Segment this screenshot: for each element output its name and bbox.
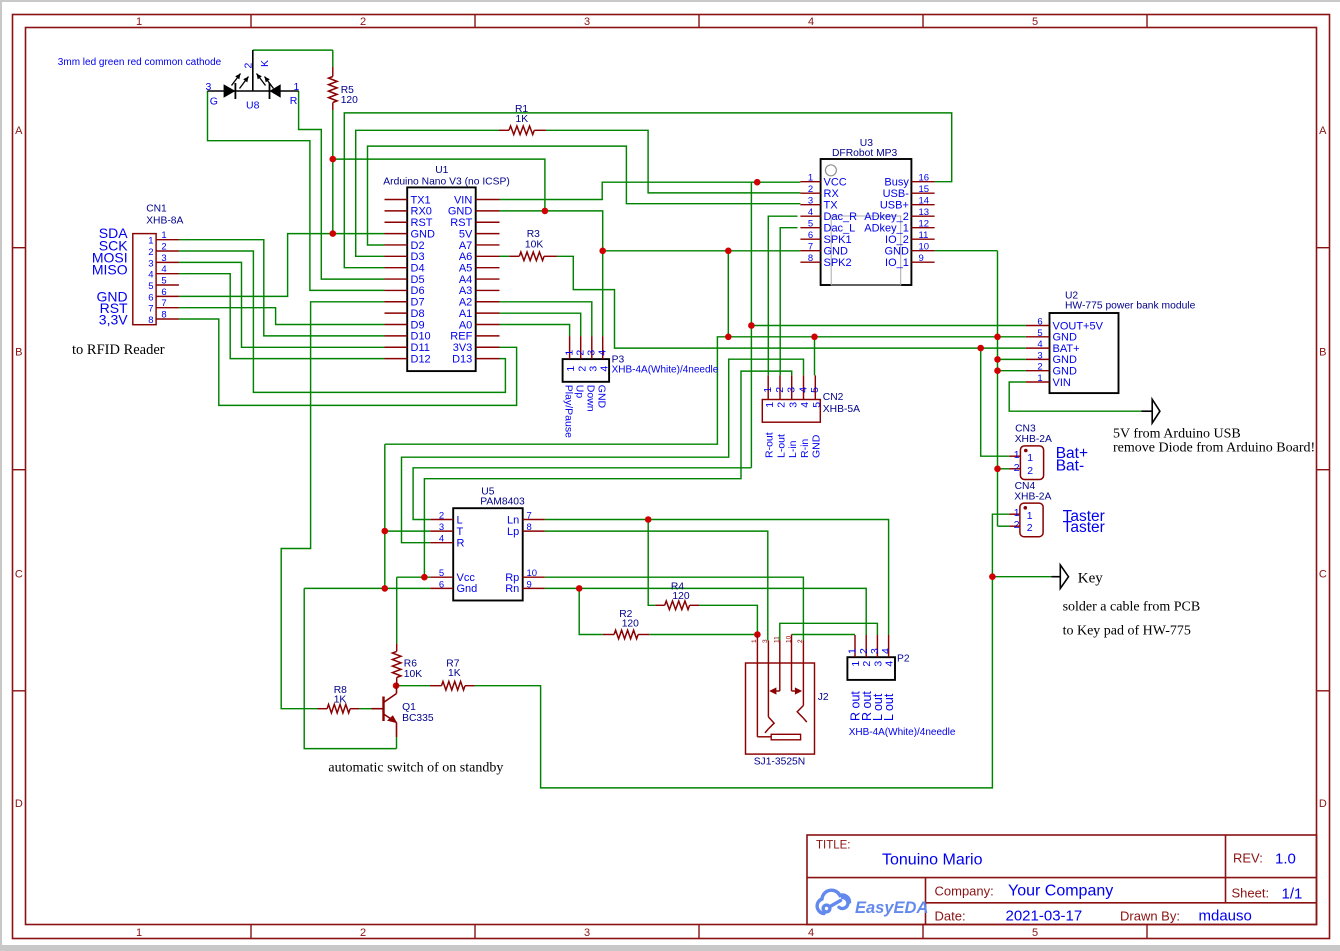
svg-text:DFRobot MP3: DFRobot MP3: [832, 148, 898, 159]
svg-text:GND: GND: [596, 385, 608, 409]
svg-text:12: 12: [919, 219, 930, 230]
svg-text:5V: 5V: [459, 228, 473, 240]
svg-text:2: 2: [858, 648, 870, 654]
svg-text:Dac_R: Dac_R: [824, 211, 858, 223]
svg-text:5: 5: [148, 281, 153, 292]
svg-text:1: 1: [136, 927, 142, 939]
svg-text:Vcc: Vcc: [457, 572, 476, 584]
svg-text:to Key pad of HW-775: to Key pad of HW-775: [1063, 624, 1191, 639]
svg-text:8: 8: [808, 253, 813, 264]
svg-text:GND: GND: [1053, 354, 1078, 366]
svg-text:9: 9: [919, 253, 924, 264]
svg-text:13: 13: [919, 207, 930, 218]
svg-text:2: 2: [1027, 465, 1033, 477]
svg-text:5V from Arduino USB: 5V from Arduino USB: [1113, 427, 1241, 442]
svg-text:D6: D6: [411, 285, 425, 297]
svg-text:CN4: CN4: [1015, 481, 1036, 492]
svg-text:8: 8: [161, 310, 166, 321]
svg-text:8: 8: [527, 522, 532, 533]
svg-text:3: 3: [584, 16, 590, 28]
svg-text:1: 1: [136, 16, 142, 28]
svg-text:ADkey_1: ADkey_1: [864, 223, 909, 235]
svg-text:2: 2: [797, 639, 804, 643]
svg-text:Company:: Company:: [935, 884, 994, 899]
svg-text:1: 1: [751, 639, 758, 643]
svg-text:IO_1: IO_1: [885, 257, 909, 269]
svg-text:4: 4: [808, 207, 813, 218]
svg-text:5: 5: [809, 387, 821, 393]
svg-text:K: K: [259, 60, 271, 67]
svg-text:3: 3: [439, 522, 444, 533]
svg-text:D8: D8: [411, 308, 425, 320]
svg-text:2: 2: [774, 387, 786, 393]
svg-text:BAT+: BAT+: [1053, 343, 1080, 355]
svg-text:2: 2: [1037, 362, 1042, 373]
svg-text:1: 1: [294, 81, 300, 93]
svg-text:3: 3: [584, 927, 590, 939]
svg-text:1.0: 1.0: [1275, 851, 1296, 868]
svg-text:4: 4: [161, 264, 166, 275]
svg-text:9: 9: [527, 579, 532, 590]
svg-text:2: 2: [243, 63, 255, 69]
svg-text:6: 6: [148, 292, 153, 303]
svg-text:remove Diode from Arduino Boar: remove Diode from Arduino Board!: [1113, 441, 1315, 456]
svg-text:D4: D4: [411, 262, 425, 274]
svg-text:6: 6: [1037, 317, 1042, 328]
svg-text:R-out: R-out: [764, 432, 776, 458]
svg-text:Taster: Taster: [1063, 519, 1105, 536]
svg-text:A: A: [1319, 125, 1327, 137]
svg-text:MISO: MISO: [92, 262, 128, 278]
svg-text:P2: P2: [897, 654, 910, 665]
svg-text:GND: GND: [811, 434, 823, 458]
svg-text:1/1: 1/1: [1282, 886, 1303, 903]
svg-text:3: 3: [762, 639, 769, 643]
svg-text:11: 11: [774, 636, 781, 643]
svg-text:3: 3: [872, 661, 884, 667]
svg-text:A7: A7: [459, 240, 472, 252]
svg-text:14: 14: [919, 196, 930, 207]
svg-text:R: R: [290, 95, 298, 107]
svg-text:10K: 10K: [404, 669, 422, 680]
svg-text:A0: A0: [459, 319, 472, 331]
svg-text:1: 1: [1027, 510, 1033, 522]
svg-text:2: 2: [148, 247, 153, 258]
svg-text:Play/Pause: Play/Pause: [562, 385, 574, 438]
svg-text:XHB-2A: XHB-2A: [1015, 434, 1052, 445]
svg-text:VIN: VIN: [454, 194, 472, 206]
svg-text:Date:: Date:: [935, 909, 966, 924]
svg-text:SPK2: SPK2: [824, 257, 852, 269]
svg-text:2: 2: [861, 661, 873, 667]
svg-text:RST: RST: [450, 217, 472, 229]
svg-text:GND: GND: [884, 246, 909, 258]
svg-text:XHB-5A: XHB-5A: [823, 404, 860, 415]
svg-text:4: 4: [148, 270, 153, 281]
svg-text:XHB-2A: XHB-2A: [1014, 491, 1051, 502]
svg-text:ADkey_2: ADkey_2: [864, 211, 909, 223]
svg-text:5: 5: [439, 568, 444, 579]
svg-text:120: 120: [672, 591, 689, 602]
svg-text:4: 4: [808, 16, 814, 28]
svg-text:SJ1-3525N: SJ1-3525N: [754, 757, 806, 768]
svg-text:1: 1: [847, 648, 859, 654]
svg-text:A2: A2: [459, 297, 472, 309]
svg-text:7: 7: [527, 511, 532, 522]
svg-text:A3: A3: [459, 285, 472, 297]
svg-text:120: 120: [622, 619, 639, 630]
svg-text:D2: D2: [411, 240, 425, 252]
svg-text:Lp: Lp: [507, 526, 519, 538]
svg-text:1K: 1K: [448, 668, 461, 679]
svg-text:GND: GND: [1053, 332, 1078, 344]
svg-text:TX: TX: [824, 200, 839, 212]
svg-text:SPK1: SPK1: [824, 234, 852, 246]
svg-text:Dac_L: Dac_L: [824, 223, 856, 235]
svg-text:1: 1: [1037, 373, 1042, 384]
svg-text:CN1: CN1: [146, 204, 167, 215]
svg-text:Drawn By:: Drawn By:: [1120, 909, 1180, 924]
svg-text:Arduino Nano V3 (no ICSP): Arduino Nano V3 (no ICSP): [383, 177, 510, 188]
svg-text:D7: D7: [411, 297, 425, 309]
svg-text:3: 3: [869, 648, 881, 654]
svg-text:U1: U1: [435, 165, 448, 176]
svg-text:R1: R1: [515, 104, 528, 115]
svg-text:A: A: [15, 125, 23, 137]
svg-text:1K: 1K: [334, 695, 347, 706]
svg-text:1: 1: [148, 236, 153, 247]
svg-text:Busy: Busy: [884, 177, 909, 189]
svg-text:VIN: VIN: [1053, 377, 1071, 389]
svg-text:GND: GND: [824, 246, 849, 258]
svg-text:7: 7: [161, 298, 166, 309]
svg-text:D10: D10: [411, 331, 431, 343]
svg-text:2021-03-17: 2021-03-17: [1006, 908, 1083, 925]
svg-text:automatic switch of on standby: automatic switch of on standby: [328, 761, 503, 776]
svg-text:1: 1: [1027, 452, 1033, 464]
svg-text:10: 10: [527, 568, 538, 579]
svg-text:CN2: CN2: [823, 392, 844, 403]
svg-text:3: 3: [1037, 350, 1042, 361]
svg-text:Up: Up: [574, 385, 586, 399]
svg-text:4: 4: [880, 648, 892, 654]
svg-text:3: 3: [786, 387, 798, 393]
svg-text:RST: RST: [411, 217, 433, 229]
svg-text:RX0: RX0: [411, 206, 432, 218]
svg-text:Your Company: Your Company: [1008, 883, 1113, 900]
svg-text:B: B: [15, 347, 22, 359]
svg-text:D3: D3: [411, 251, 425, 263]
svg-text:L out: L out: [882, 693, 896, 721]
svg-text:Gnd: Gnd: [457, 583, 478, 595]
svg-text:L-out: L-out: [775, 434, 787, 458]
svg-text:4: 4: [797, 387, 809, 393]
svg-text:A6: A6: [459, 251, 472, 263]
svg-text:2: 2: [808, 184, 813, 195]
svg-text:D11: D11: [411, 342, 430, 354]
svg-text:CN3: CN3: [1015, 424, 1036, 435]
svg-text:3: 3: [161, 253, 166, 264]
svg-text:4: 4: [799, 402, 811, 408]
svg-text:A5: A5: [459, 262, 472, 274]
svg-text:G: G: [210, 95, 218, 107]
svg-text:4: 4: [884, 661, 896, 667]
svg-text:D9: D9: [411, 319, 425, 331]
svg-text:U8: U8: [246, 100, 260, 112]
svg-text:XHB-4A(White)/4needle: XHB-4A(White)/4needle: [849, 727, 956, 738]
svg-text:HW-775 power bank module: HW-775 power bank module: [1065, 301, 1196, 312]
svg-text:D13: D13: [452, 353, 472, 365]
svg-text:IO_2: IO_2: [885, 234, 909, 246]
svg-text:10: 10: [785, 635, 792, 643]
svg-text:7: 7: [808, 242, 813, 253]
svg-text:Q1: Q1: [402, 702, 416, 713]
svg-text:2: 2: [776, 402, 788, 408]
svg-text:Sheet:: Sheet:: [1232, 886, 1270, 901]
svg-text:1: 1: [764, 402, 776, 408]
svg-text:L: L: [457, 514, 463, 526]
svg-text:4: 4: [597, 350, 609, 356]
svg-text:Bat-: Bat-: [1056, 458, 1084, 475]
svg-text:GND: GND: [448, 206, 473, 218]
svg-text:J2: J2: [818, 692, 829, 703]
svg-text:T: T: [457, 526, 464, 538]
svg-text:6: 6: [808, 230, 813, 241]
svg-text:EasyEDA: EasyEDA: [855, 899, 928, 917]
svg-text:R-in: R-in: [799, 439, 811, 458]
svg-text:REF: REF: [450, 331, 472, 343]
svg-text:2: 2: [360, 927, 366, 939]
svg-text:B: B: [1319, 347, 1326, 359]
svg-text:Ln: Ln: [507, 514, 519, 526]
svg-text:Rp: Rp: [505, 572, 519, 584]
svg-text:VCC: VCC: [824, 177, 847, 189]
svg-text:BC335: BC335: [402, 713, 434, 724]
svg-text:4: 4: [808, 927, 814, 939]
svg-text:R3: R3: [527, 229, 540, 240]
svg-text:D5: D5: [411, 274, 425, 286]
svg-text:mdauso: mdauso: [1199, 908, 1252, 925]
svg-text:1: 1: [850, 661, 862, 667]
svg-text:C: C: [1319, 569, 1327, 581]
svg-text:to RFID Reader: to RFID Reader: [72, 342, 165, 358]
svg-text:1: 1: [1014, 507, 1020, 519]
svg-text:USB+: USB+: [880, 200, 909, 212]
svg-text:3mm led green red common catho: 3mm led green red common cathode: [58, 57, 222, 68]
svg-text:XHB-4A(White)/4needle: XHB-4A(White)/4needle: [612, 365, 719, 376]
svg-text:3: 3: [808, 196, 813, 207]
svg-text:3V3: 3V3: [453, 342, 473, 354]
svg-text:6: 6: [161, 287, 166, 298]
svg-text:2: 2: [1014, 462, 1020, 474]
svg-text:4: 4: [1037, 339, 1042, 350]
svg-text:RX: RX: [824, 188, 840, 200]
svg-text:5: 5: [1032, 927, 1038, 939]
svg-text:GND: GND: [411, 228, 436, 240]
svg-text:USB-: USB-: [883, 188, 910, 200]
svg-text:7: 7: [148, 304, 153, 315]
svg-text:1K: 1K: [516, 114, 529, 125]
svg-text:1: 1: [762, 387, 774, 393]
svg-text:8: 8: [148, 315, 153, 326]
svg-text:TX1: TX1: [411, 194, 431, 206]
svg-text:Rn: Rn: [505, 583, 519, 595]
svg-text:3: 3: [206, 81, 212, 93]
svg-text:D: D: [1319, 798, 1327, 810]
svg-text:2: 2: [161, 242, 166, 253]
svg-text:10K: 10K: [525, 240, 543, 251]
svg-text:1: 1: [1014, 449, 1020, 461]
svg-text:A4: A4: [459, 274, 472, 286]
svg-text:3,3V: 3,3V: [99, 312, 128, 328]
svg-text:C: C: [15, 569, 23, 581]
svg-text:5: 5: [808, 219, 813, 230]
svg-text:15: 15: [919, 184, 930, 195]
svg-text:2: 2: [1027, 522, 1033, 534]
svg-text:11: 11: [919, 230, 929, 241]
svg-text:VOUT+5V: VOUT+5V: [1053, 320, 1104, 332]
svg-text:5: 5: [1037, 328, 1042, 339]
svg-text:6: 6: [439, 579, 444, 590]
svg-text:5: 5: [161, 276, 166, 287]
svg-text:REV:: REV:: [1233, 851, 1263, 866]
svg-text:solder a cable from PCB: solder a cable from PCB: [1063, 600, 1201, 615]
svg-text:2: 2: [1014, 519, 1020, 531]
svg-text:2: 2: [439, 511, 444, 522]
svg-text:16: 16: [919, 173, 930, 184]
svg-text:3: 3: [787, 402, 799, 408]
svg-text:3: 3: [148, 258, 153, 269]
svg-text:R: R: [457, 538, 465, 550]
svg-text:120: 120: [341, 95, 358, 106]
svg-text:D: D: [15, 798, 23, 810]
svg-text:1: 1: [161, 230, 166, 241]
svg-text:L-in: L-in: [787, 440, 799, 458]
svg-text:1: 1: [808, 173, 813, 184]
svg-text:5: 5: [811, 402, 823, 408]
svg-text:TITLE:: TITLE:: [816, 840, 851, 852]
svg-text:10: 10: [919, 242, 930, 253]
svg-text:4: 4: [439, 534, 444, 545]
svg-text:XHB-8A: XHB-8A: [146, 216, 183, 227]
svg-text:D12: D12: [411, 353, 431, 365]
svg-text:Down: Down: [585, 385, 597, 412]
svg-text:GND: GND: [1053, 366, 1078, 378]
svg-text:Key: Key: [1078, 571, 1103, 587]
svg-text:5: 5: [1032, 16, 1038, 28]
svg-text:A1: A1: [459, 308, 472, 320]
svg-text:PAM8403: PAM8403: [480, 497, 525, 508]
svg-text:Tonuino Mario: Tonuino Mario: [882, 852, 983, 869]
svg-text:4: 4: [598, 366, 610, 372]
svg-text:2: 2: [360, 16, 366, 28]
